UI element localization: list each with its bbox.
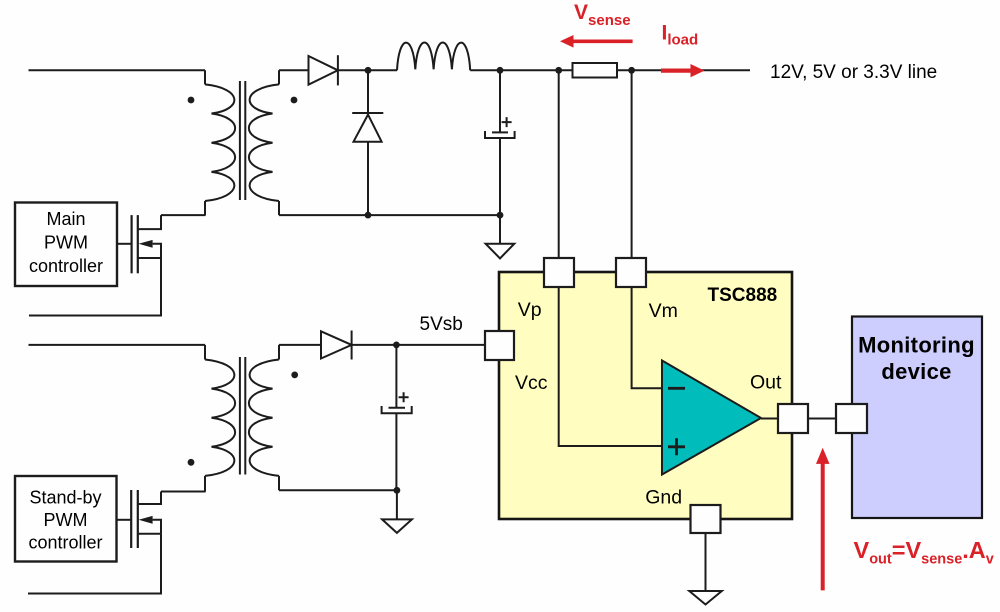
wire: Vm sense line down to chip — [631, 70, 633, 258]
transistor Q1 source stub — [138, 257, 161, 259]
Main PWM controller box — [15, 203, 117, 287]
transistor Q1 channel bar — [137, 215, 139, 273]
capacitor C2 bottom lead — [395, 413, 397, 490]
transistor Q1 body stub with arrow — [153, 244, 161, 258]
transformer T2 primary winding — [205, 345, 235, 492]
T2 primary phase dot — [188, 459, 195, 466]
diode D1 — [309, 56, 338, 85]
node: sense tap dot Vm — [628, 67, 635, 74]
svg-text:controller: controller — [29, 256, 103, 276]
capacitor C2 plus sign — [399, 392, 409, 402]
svg-text:PWM: PWM — [44, 233, 88, 253]
transistor Q2 gate bar — [130, 490, 132, 548]
wire: standby primary return to Q2 drain — [161, 491, 206, 493]
wire: standby input rail — [29, 344, 206, 346]
red Vsense arrow — [560, 35, 633, 48]
transistor Q2 body stub with arrow — [153, 520, 161, 534]
T1 secondary phase dot — [291, 97, 298, 104]
inductor L1 — [397, 42, 470, 70]
svg-text:Vm: Vm — [649, 300, 678, 322]
wire: D1 to inductor L1 — [338, 69, 397, 71]
svg-text:Vp: Vp — [518, 299, 542, 321]
transistor Q1 drain stub — [138, 215, 161, 229]
wire: junction down to freewheel diode D2 — [367, 70, 369, 113]
capacitor C1 negative bracket — [485, 131, 515, 138]
svg-text:Gnd: Gnd — [645, 487, 682, 509]
chip TSC888 body — [499, 272, 792, 519]
transformer T1 secondary winding — [249, 70, 279, 215]
svg-text:5Vsb: 5Vsb — [420, 314, 463, 335]
svg-text:controller: controller — [28, 532, 102, 552]
ground symbol chip — [689, 591, 722, 605]
svg-text:12V, 5V or 3.3V line: 12V, 5V or 3.3V line — [770, 62, 937, 83]
node: sense tap dot Vp — [555, 67, 562, 74]
wire: op-amp output to Out pin — [761, 418, 778, 420]
wire: secondary return rail — [279, 214, 500, 216]
transistor Q2 channel bar — [137, 490, 139, 548]
op-amp plus sign — [668, 438, 685, 455]
svg-text:Out: Out — [750, 371, 782, 393]
capacitor C2 positive plate — [389, 407, 406, 409]
svg-text:Iload: Iload — [662, 22, 699, 49]
capacitor C1 plus sign — [502, 117, 512, 127]
node: junction dot 5Vsb at C2 top — [393, 342, 400, 349]
wire: Vp internal to op-amp plus input — [559, 287, 662, 446]
wire: Q2 source return rail — [28, 534, 161, 594]
svg-text:Stand-by: Stand-by — [29, 487, 101, 507]
T1 primary phase dot — [188, 97, 195, 104]
wire: main primary return to Q1 drain — [161, 214, 206, 216]
pin square Vcc — [485, 331, 514, 360]
wire: standby secondary return rail — [279, 489, 397, 491]
red Vout arrow — [816, 448, 830, 591]
wire: gate lead Q2 — [117, 519, 132, 521]
svg-text:Vcc: Vcc — [515, 372, 548, 394]
node: output junction dot at C1 top — [497, 67, 504, 74]
transformer T1 core — [240, 81, 245, 200]
svg-text:Monitoring: Monitoring — [858, 332, 975, 357]
Stand-by PWM controller box — [15, 476, 117, 562]
wire: Q1 source return rail — [29, 258, 161, 316]
freewheel diode D2 — [352, 112, 383, 114]
transformer T2 secondary winding — [249, 345, 279, 490]
node: junction dot D2 on return rail — [365, 212, 372, 219]
wire: Gnd pin lead — [705, 533, 707, 591]
ground symbol standby — [396, 490, 398, 519]
pin square Vm — [616, 258, 646, 287]
wire: L1 to output node — [470, 69, 500, 71]
wire: Out pin to monitoring pin — [808, 418, 836, 420]
svg-text:Main: Main — [46, 209, 85, 229]
op-amp U1 — [662, 361, 761, 475]
svg-text:TSC888: TSC888 — [708, 285, 778, 306]
transformer T1 primary winding — [205, 70, 235, 215]
svg-text:Vsense: Vsense — [574, 1, 631, 29]
svg-text:device: device — [881, 359, 951, 384]
pin square Gnd — [691, 505, 721, 533]
node: junction dot C1 bottom on return rail — [497, 212, 504, 219]
transformer T2 core — [240, 357, 245, 475]
capacitor C1 bottom lead — [499, 138, 501, 215]
node: junction dot D1/D2 — [365, 67, 372, 74]
sense resistor R1 — [573, 63, 618, 78]
capacitor C2 negative bracket — [382, 406, 412, 413]
capacitor C1 top lead — [499, 70, 501, 132]
wire: gate lead Q1 — [117, 243, 132, 245]
op-amp minus sign — [668, 387, 685, 390]
wire: T2 secondary top to diode D3 — [279, 344, 321, 346]
transistor Q1 gate bar — [131, 215, 133, 273]
ground symbol main output — [499, 215, 501, 244]
Monitoring device box — [852, 317, 982, 519]
transistor Q2 drain stub — [138, 492, 161, 505]
node: junction dot C2 bottom — [394, 487, 401, 494]
wire: main input rail top — [29, 69, 206, 71]
red Iload arrow — [661, 64, 705, 77]
wire: T1 secondary top to diode D1 — [279, 69, 309, 71]
wire: Vp sense line down to chip — [558, 70, 560, 258]
wire: D2 anode down to secondary return rail — [367, 142, 369, 215]
pin square monitoring input — [836, 404, 867, 433]
T2 secondary phase dot — [291, 372, 298, 379]
capacitor C2 top lead — [395, 345, 397, 408]
pin square Out — [778, 404, 808, 433]
svg-text:PWM: PWM — [44, 510, 88, 530]
svg-text:Vout=Vsense.Av: Vout=Vsense.Av — [854, 537, 994, 568]
pin square Vp — [544, 258, 574, 287]
transistor Q2 source stub — [138, 533, 161, 535]
capacitor C1 positive plate — [492, 131, 508, 133]
diode D3 — [321, 331, 352, 358]
wire: output rail to sense resistor and load — [500, 69, 750, 71]
wire: D3 to Vcc pin — [352, 344, 485, 346]
wire: Vm internal to op-amp minus input — [632, 287, 662, 388]
